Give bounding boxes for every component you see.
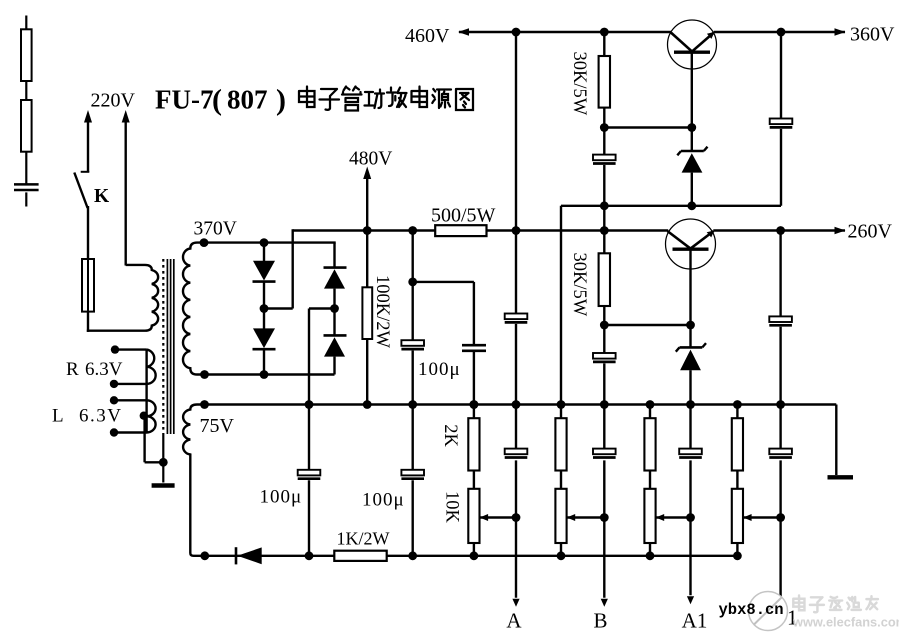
node [470,400,479,409]
wire [689,405,691,450]
capacitor C1 [593,155,616,161]
resistor 10K chain no.4 (pot) [732,489,743,543]
resistor 1K/2W [334,551,386,561]
wire [779,231,781,317]
wire [412,405,414,471]
wire [515,405,517,450]
diode D5 [235,547,238,564]
node [470,551,479,560]
node [557,400,566,409]
svg-text:460V: 460V [405,25,450,47]
node bridge left middle (DC+) [260,304,269,313]
node [733,400,742,409]
node [470,400,479,409]
resistor 2K chain no.2 [555,418,566,470]
node [512,400,521,409]
transformer 75V bias winding [183,405,204,556]
wire bridge DC- drop [308,309,310,405]
wire [603,231,605,255]
resistor 500/5W [435,225,486,236]
series dropper resistor Ra [21,29,32,81]
wire ch1 lower row [561,205,781,207]
svg-text:): ) [276,84,286,117]
node 260V bypass top [776,226,785,235]
title glyph dian2 [412,87,428,108]
wire [473,471,475,490]
title glyph zi [320,89,340,110]
wiper arrow for A1 [656,516,690,518]
capacitor output B [593,449,616,455]
wire [603,405,605,450]
220V phase arrow (right) [122,110,130,123]
wire [333,289,335,336]
wiper arrow for A [480,516,516,518]
svg-text:100μ: 100μ [260,486,303,507]
wire ch2 base row [604,324,690,326]
resistor 2K chain no.4 [732,418,743,470]
node [512,226,521,235]
wire output B column [603,460,605,597]
wire [736,471,738,490]
resistor 2K chain no.3 [644,418,655,470]
220V phase arrow (left) [84,110,92,123]
ground (main rail) [828,475,854,479]
svg-text:K: K [94,186,110,207]
svg-text:100K/2W: 100K/2W [372,275,392,349]
resistor 10K chain no.1 (pot) [468,489,479,543]
wire [263,349,265,374]
title glyph yuan [432,89,451,108]
svg-text:100μ: 100μ [362,490,405,511]
resistor 2K chain no.1 [468,418,479,470]
wire output A column [515,460,517,597]
resistor 100K/2W [362,287,372,339]
title glyph dian [299,87,315,108]
wire [560,471,562,490]
svg-text:1K/2W: 1K/2W [337,529,390,549]
arrow output A1 [687,596,694,604]
capacitor output A [505,449,528,455]
node wiper [600,513,609,522]
series dropper resistor Rb [21,100,32,152]
fuse F1 [82,259,94,312]
wire [333,357,335,375]
wire [603,32,605,57]
wire chain no.1 [473,405,475,420]
svg-text:30K/5W: 30K/5W [569,52,589,116]
wire [691,173,693,206]
svg-text:ybx8.cn: ybx8.cn [719,601,784,619]
series dropper element: wire [25,16,27,31]
wire chain no.4 [736,405,738,420]
wire [649,471,651,490]
series dropper capacitor Ca [14,183,39,186]
wire 460V rail [459,31,671,33]
node 460V drop [512,28,521,37]
wire [366,339,368,405]
wire [263,282,265,329]
wiper arrow for B [567,516,604,518]
capacitor 100u (first) [401,340,424,346]
wire [560,543,562,556]
node wiper [512,513,521,522]
svg-text:370V: 370V [194,219,237,240]
title glyph tu [456,89,473,110]
wire main rail [205,403,837,405]
svg-text:FU-7: FU-7 [155,85,213,115]
svg-text:6.3V: 6.3V [79,406,122,427]
switch K [81,171,90,173]
transistor Q1 [668,20,717,69]
wire rail to ground [835,405,837,476]
capacitor (360V bypass) [770,119,793,125]
node [600,400,609,409]
capacitor 100u (bias filter 1) [298,470,321,476]
node 360V bypass top [777,28,786,37]
node base row right [687,123,696,132]
node [686,321,695,330]
wire output B1 column [779,460,781,598]
wire chain no.3 [649,405,651,420]
wire [689,325,691,348]
wire output A1 column [689,460,691,595]
terminal L 6.3V bottom [110,428,118,436]
node 30K/5W no.1 top [600,28,609,37]
wire [603,108,605,155]
svg-text:www.elecfans.com: www.elecfans.com [792,615,899,630]
wire [412,231,414,341]
resistor 30K/5W (upper) [599,56,610,108]
wire Q1 base to zener [691,128,693,152]
node bridge right middle (DC-) [330,304,339,313]
transformer 370V secondary winding [183,243,205,375]
capacitor 100u (bias filter 2) [401,470,424,476]
arrow output A [512,599,519,607]
capacitor (460V rail bypass) [505,314,528,320]
svg-text:10K: 10K [442,491,462,524]
title glyph guan [342,87,362,111]
heater winding centre tap [140,412,148,420]
svg-text:75V: 75V [200,415,235,437]
node bridge AC1 [260,238,269,247]
svg-text:L: L [52,406,64,427]
node wiper [686,513,695,522]
wire [263,243,265,262]
wire [780,32,782,119]
svg-text:480V: 480V [349,149,392,170]
node 370V top [200,238,209,247]
node [305,400,314,409]
wire base row [604,126,692,128]
transistor Q2 [666,219,716,269]
node [687,201,696,210]
diode D2 [253,328,275,348]
svg-text:(: ( [212,84,222,117]
wire bias line [194,555,738,557]
ground (transformer) [152,483,175,487]
wire [308,405,310,471]
diode D1 [253,261,275,281]
svg-text:A: A [506,609,522,633]
resistor 10K chain no.2 (pot) [555,489,566,543]
wire chain no.2 [560,405,562,420]
wire [779,405,781,450]
node base row left [600,123,609,132]
node 100u tap [408,226,417,235]
node bridge left bottom [260,370,269,379]
wire [473,543,475,556]
arrow 460V [458,28,469,36]
wire jog [413,281,474,283]
capacitor output A1 [679,449,702,455]
wire [162,434,164,483]
capacitor (second, non-polar) [462,344,486,347]
wire [603,306,605,354]
wire [473,351,475,405]
node [686,400,695,409]
node jog [408,278,417,287]
wire [780,129,782,206]
node [776,400,785,409]
wire [603,363,605,404]
svg-text:30K/5W: 30K/5W [569,253,589,317]
svg-text:100μ: 100μ [418,359,461,380]
svg-text:A1: A1 [682,609,708,633]
wire [412,480,414,556]
wire Q2 base [689,249,691,325]
wire [736,543,738,556]
svg-text:260V: 260V [848,221,893,243]
wire [779,327,781,405]
resistor 10K chain no.3 (pot) [644,489,655,543]
node [600,321,609,330]
diode D3 [324,266,347,269]
wire DC+ jog [264,307,293,309]
wire bridge right top drop [333,243,335,268]
node [557,551,566,560]
node [200,551,209,560]
node [408,400,417,409]
node [305,551,314,560]
wire [25,81,27,101]
arrow 260V output [835,227,846,235]
wire DC- jog [309,307,335,309]
node ground junction [159,458,168,467]
node [408,551,417,560]
zener diode Z1 [677,147,707,173]
wire centre tap to ground [143,416,145,463]
node 75V top [200,400,209,409]
node 480V tap [363,226,372,235]
wire drop to rail [560,206,562,405]
node [733,551,742,560]
watermark circle logo [749,592,788,631]
wire [515,324,517,405]
node [646,551,655,560]
zener diode Z2 [676,343,706,370]
terminal R 6.3V top [111,345,119,353]
title text FU-7 (807) [155,84,286,117]
wire [689,370,691,404]
wire 370V top rail [204,241,336,243]
capacitor (260V bypass) [769,316,792,322]
wiper arrow for B1 [744,516,781,518]
svg-text:500/5W: 500/5W [431,204,496,226]
wire [25,192,27,206]
wire [649,543,651,556]
arrow output B [601,599,608,607]
arrow 360V [835,28,846,36]
svg-text:220V: 220V [91,90,136,112]
terminal L 6.3V top [110,396,118,404]
node wiper [776,513,785,522]
capacitor C2 [593,353,616,359]
wire [412,351,414,405]
svg-text:807: 807 [227,85,268,115]
wire [515,32,517,314]
svg-text:B: B [593,609,607,633]
svg-text:6.3V: 6.3V [85,359,123,380]
wire Q1 base [691,52,693,127]
diode D4 [324,334,347,337]
svg-text:360V: 360V [850,24,895,46]
node [600,226,609,235]
node [646,400,655,409]
node 370V bottom [200,370,209,379]
capacitor output B1 [769,449,792,455]
svg-text:2K: 2K [440,424,460,447]
terminal R 6.3V bottom [110,380,118,388]
wire [87,312,89,332]
wire 360V rail [714,31,845,33]
wire [308,480,310,556]
wire [25,152,27,184]
resistor 30K/5W (lower) [599,253,610,306]
wire [603,165,605,231]
transformer R 6.3V heater winding [114,350,156,433]
svg-text:R: R [66,359,79,380]
title glyph gong [365,90,385,109]
transformer core (laminations) [163,259,174,434]
title glyph fang [387,88,407,108]
watermark elecfans logo text [793,596,878,613]
wire DC+ rail to 260V [293,229,436,231]
transformer primary winding [87,265,158,331]
node [600,201,609,210]
node 100K bottom [363,400,372,409]
wire 370V bottom rail [205,373,335,375]
